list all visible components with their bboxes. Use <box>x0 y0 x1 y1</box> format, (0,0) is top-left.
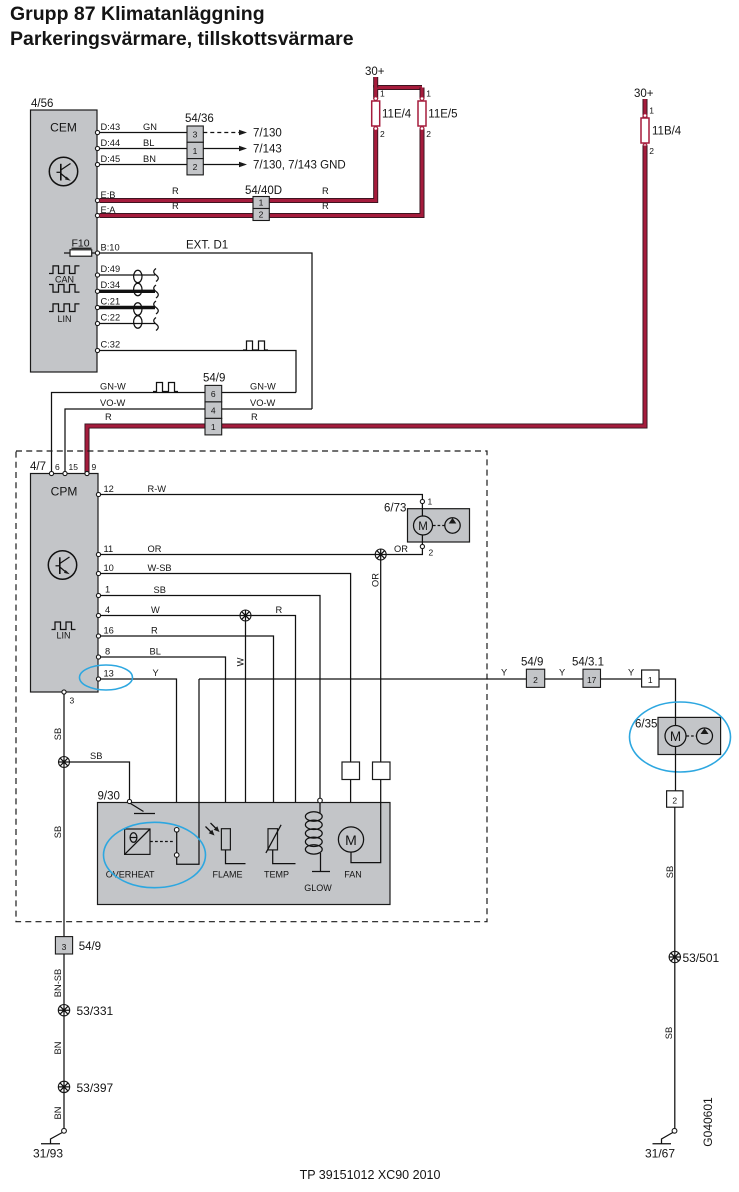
svg-text:53/501: 53/501 <box>683 951 720 965</box>
battery feed node 30+ (right) <box>634 88 654 100</box>
wire W vertical to flame return <box>236 621 246 864</box>
wire BL from pin 8 to flame sensor <box>101 647 226 829</box>
svg-text:1: 1 <box>649 106 654 116</box>
svg-text:VO-W: VO-W <box>100 398 126 408</box>
inline connector square (fan return) <box>373 762 391 780</box>
svg-text:8: 8 <box>105 647 110 657</box>
svg-text:TP 39151012 XC90 2010: TP 39151012 XC90 2010 <box>300 1168 441 1182</box>
svg-text:1: 1 <box>426 89 431 99</box>
svg-text:VO-W: VO-W <box>250 398 276 408</box>
svg-text:6: 6 <box>211 389 216 399</box>
wire D:44 BL <box>100 138 188 149</box>
wire Y continuation to connector 54/9 pin 2 <box>199 668 526 680</box>
CPM pin 10 <box>96 563 113 576</box>
glow element pin <box>318 798 323 803</box>
svg-text:SB: SB <box>53 728 63 740</box>
svg-text:GLOW: GLOW <box>304 883 332 893</box>
svg-text:4: 4 <box>105 605 110 615</box>
svg-text:R-W: R-W <box>148 484 167 494</box>
CEM pin D:34 <box>95 280 120 293</box>
svg-text:C:32: C:32 <box>101 340 121 350</box>
svg-text:CAN: CAN <box>55 275 74 285</box>
control unit CEM 4/56 <box>31 98 98 372</box>
svg-text:SB: SB <box>665 866 675 878</box>
svg-text:BL: BL <box>143 138 154 148</box>
svg-text:1: 1 <box>648 675 653 685</box>
CEM pin C:22 <box>95 313 120 326</box>
junction 53/501 <box>669 951 719 965</box>
CPM pin 1 <box>96 585 110 598</box>
junction on SB wire <box>59 757 70 768</box>
svg-text:17: 17 <box>587 675 597 685</box>
svg-text:2: 2 <box>259 210 264 220</box>
CPM pin 13 <box>96 669 113 682</box>
LIN twisted pair C:21/C:22 <box>100 301 159 331</box>
svg-text:BN: BN <box>53 1042 63 1055</box>
wire R-W from pin 12 to pump 6/73 pin 1 <box>101 484 433 509</box>
CEM pin E:A <box>95 205 116 218</box>
CPM pin 11 <box>96 544 113 557</box>
svg-text:R: R <box>322 186 329 196</box>
control unit CPM 4/7 <box>30 461 98 692</box>
wire OR from pin 11 to pump 6/73 pin 2 <box>101 542 434 558</box>
battery feed node 30+ (left) <box>365 66 385 78</box>
svg-text:FAN: FAN <box>344 870 362 880</box>
svg-text:1: 1 <box>105 585 110 595</box>
svg-text:3: 3 <box>193 130 198 140</box>
svg-text:2: 2 <box>429 548 434 558</box>
svg-text:11B/4: 11B/4 <box>652 126 682 138</box>
wire R E:A to fuse 11E/5 (red power) <box>100 88 423 216</box>
connector 54/9 pin 3 (lower) <box>55 937 101 954</box>
svg-text:31/67: 31/67 <box>645 1147 675 1161</box>
overheat thermostat <box>106 829 174 880</box>
svg-text:R: R <box>251 412 258 422</box>
fuse F10 inside CEM <box>64 238 97 257</box>
svg-text:W: W <box>151 605 160 615</box>
svg-text:Y: Y <box>559 668 565 678</box>
svg-text:Y: Y <box>153 668 159 678</box>
transistor symbol inside CPM <box>48 551 76 579</box>
svg-text:54/40D: 54/40D <box>245 185 282 197</box>
CAN bus twisted pair D:49/D:34 <box>100 269 159 299</box>
fuse 11B/4 <box>641 99 682 156</box>
svg-text:11E/4: 11E/4 <box>382 109 412 121</box>
svg-text:31/93: 31/93 <box>33 1147 63 1161</box>
svg-text:54/9: 54/9 <box>79 941 101 953</box>
svg-text:D:45: D:45 <box>101 154 121 164</box>
svg-text:30+: 30+ <box>365 66 385 78</box>
dashed enclosure (heater assembly) <box>16 451 487 922</box>
CEM pin D:44 <box>95 138 120 151</box>
svg-text:2: 2 <box>426 129 431 139</box>
svg-text:G040601: G040601 <box>701 1097 715 1147</box>
svg-text:C:22: C:22 <box>101 313 121 323</box>
svg-text:30+: 30+ <box>634 88 654 100</box>
CPM top pin 9 <box>85 462 97 476</box>
CPM pin 12 <box>96 484 113 497</box>
svg-text:11: 11 <box>104 544 114 554</box>
svg-text:7/130, 7/143 GND: 7/130, 7/143 GND <box>253 160 346 172</box>
svg-text:15: 15 <box>69 462 79 472</box>
svg-text:R: R <box>276 605 283 615</box>
CAN square-wave symbol <box>49 266 80 292</box>
svg-text:12: 12 <box>104 484 114 494</box>
CEM pin B:10 <box>95 243 119 256</box>
svg-text:54/9: 54/9 <box>521 657 543 669</box>
svg-text:OR: OR <box>148 544 162 554</box>
svg-text:FLAME: FLAME <box>212 870 242 880</box>
CPM pin 8 <box>96 647 110 660</box>
wire VO-W left <box>65 398 205 473</box>
svg-text:C:21: C:21 <box>101 297 121 307</box>
svg-text:2: 2 <box>672 796 677 806</box>
switch contact into 9/30 <box>127 799 155 813</box>
pump 6/35 <box>635 717 721 754</box>
CPM pin 4 <box>96 605 110 618</box>
ground 31/67 <box>645 1128 677 1160</box>
wire EXT. D1 from B:10 <box>100 240 313 410</box>
CEM pin D:49 <box>95 264 120 277</box>
wire BN-SB to junction 53/331 <box>53 954 64 1129</box>
svg-text:1: 1 <box>259 198 264 208</box>
svg-text:53/397: 53/397 <box>77 1081 114 1095</box>
svg-text:BN: BN <box>143 154 156 164</box>
svg-text:16: 16 <box>104 626 114 636</box>
svg-text:BN-SB: BN-SB <box>53 969 63 997</box>
svg-text:Grupp 87 Klimatanläggning: Grupp 87 Klimatanläggning <box>10 3 265 25</box>
CPM top pin 6 <box>49 462 60 476</box>
svg-text:OR: OR <box>371 573 381 587</box>
connector 54/3.1 pin 17 <box>572 657 604 688</box>
wire SB branch to heater switch <box>70 751 130 800</box>
svg-text:GN: GN <box>143 122 157 132</box>
CEM pin C:21 <box>95 297 120 310</box>
svg-text:7/130: 7/130 <box>253 128 282 140</box>
svg-text:M: M <box>670 729 681 744</box>
svg-text:Parkeringsvärmare, tillskottsv: Parkeringsvärmare, tillskottsvärmare <box>10 28 354 50</box>
svg-text:53/331: 53/331 <box>77 1004 114 1018</box>
svg-text:BN: BN <box>53 1107 63 1120</box>
dashed wire to 7/130 with arrow <box>203 128 281 140</box>
svg-text:4: 4 <box>211 406 216 416</box>
wire to 7/143 with arrow <box>203 144 281 156</box>
svg-text:SB: SB <box>53 826 63 838</box>
junction 53/397 <box>58 1081 113 1095</box>
svg-text:M: M <box>418 521 428 533</box>
wire Y to connector 1 <box>601 668 642 680</box>
temperature sensor <box>264 825 296 880</box>
glow element coil <box>304 803 332 893</box>
svg-text:3: 3 <box>62 942 67 952</box>
svg-text:10: 10 <box>104 563 114 573</box>
svg-text:1: 1 <box>193 146 198 156</box>
svg-text:6/35: 6/35 <box>635 719 657 731</box>
connector 54/40D <box>245 185 282 221</box>
svg-text:9/30: 9/30 <box>98 791 120 803</box>
wire GN-W right <box>222 382 296 393</box>
junction on W wire <box>240 610 251 621</box>
svg-text:R: R <box>322 201 329 211</box>
svg-text:3: 3 <box>70 696 75 706</box>
svg-text:R: R <box>105 412 112 422</box>
svg-text:W: W <box>236 657 246 666</box>
heater unit 9/30 <box>98 791 391 905</box>
wire from 6/35 to connector 2 <box>675 755 677 791</box>
svg-text:Y: Y <box>501 668 507 678</box>
LIN square-wave symbol in CPM <box>52 622 76 641</box>
svg-text:2: 2 <box>380 129 385 139</box>
junction 53/331 <box>58 1004 113 1018</box>
highlight ellipse on pin 13 <box>80 665 133 690</box>
svg-text:1: 1 <box>428 497 433 507</box>
svg-text:B:10: B:10 <box>101 243 120 253</box>
wire R E:B to fuse 11E/4 (red power) <box>100 77 423 201</box>
svg-text:1: 1 <box>211 422 216 432</box>
svg-text:1: 1 <box>380 89 385 99</box>
svg-text:LIN: LIN <box>57 314 71 324</box>
wire GN-W left with signal symbol <box>52 382 206 474</box>
transistor symbol inside CEM <box>49 157 77 185</box>
svg-text:54/3.1: 54/3.1 <box>572 657 604 669</box>
wire SB from CPM pin 3 down <box>53 694 64 937</box>
wire R from pin 16 to temp sensor <box>101 626 274 829</box>
svg-text:2: 2 <box>649 146 654 156</box>
CPM bottom pin 3 <box>62 690 75 706</box>
svg-text:CPM: CPM <box>51 485 78 499</box>
wire Y from pin 13 to overheat switch <box>101 668 177 828</box>
svg-text:D:49: D:49 <box>101 264 121 274</box>
wire R main feed from 11B/4 to 54/9 to CPM pin 9 (red power) <box>87 146 645 474</box>
svg-text:2: 2 <box>533 675 538 685</box>
wire SB from pin 1 down to glow pin <box>101 585 321 798</box>
svg-text:13: 13 <box>104 669 114 679</box>
page title <box>10 3 354 50</box>
svg-text:D:43: D:43 <box>101 122 121 132</box>
svg-text:R: R <box>151 626 158 636</box>
wire D:45 BN <box>100 154 188 165</box>
CPM pin 16 <box>96 626 113 639</box>
wire to pump 6/35 <box>659 679 676 717</box>
svg-text:GN-W: GN-W <box>100 382 126 392</box>
svg-text:BL: BL <box>150 647 161 657</box>
wire D:43 GN <box>100 122 188 133</box>
svg-text:SB: SB <box>154 585 166 595</box>
svg-text:TEMP: TEMP <box>264 870 289 880</box>
wire from C:32 with signal symbol <box>100 341 297 393</box>
svg-text:54/9: 54/9 <box>203 373 225 385</box>
svg-text:9: 9 <box>92 462 97 472</box>
svg-text:D:34: D:34 <box>101 280 121 290</box>
fan motor <box>338 780 380 880</box>
ground 31/93 <box>33 1128 66 1160</box>
wire Y between connectors <box>545 668 583 680</box>
svg-text:R: R <box>172 201 179 211</box>
CEM pin C:32 <box>95 340 120 353</box>
connector 1 of 6/35 <box>642 670 659 687</box>
wire VO-W right <box>222 398 312 409</box>
svg-text:54/36: 54/36 <box>185 113 214 125</box>
svg-text:W-SB: W-SB <box>148 563 172 573</box>
connector 2 of 6/35 <box>667 791 683 807</box>
svg-text:SB: SB <box>664 1027 674 1039</box>
highlight ellipse on 6/35 <box>630 702 731 772</box>
wire OR vertical to fan connector <box>371 560 381 762</box>
svg-text:11E/5: 11E/5 <box>428 109 457 121</box>
svg-text:R: R <box>172 186 179 196</box>
svg-text:M: M <box>345 832 357 848</box>
svg-text:6/73: 6/73 <box>384 503 406 515</box>
CEM pin D:45 <box>95 154 120 167</box>
wire to 7/130, 7/143 GND with arrow <box>203 160 345 172</box>
svg-text:Y: Y <box>628 668 634 678</box>
wire SB from connector 2 to ground <box>664 807 675 1128</box>
connector 54/36 <box>185 113 214 175</box>
svg-text:LIN: LIN <box>56 631 70 641</box>
LIN square-wave symbol in CEM <box>49 304 80 324</box>
fuse 11E/5 <box>418 89 458 140</box>
svg-text:GN-W: GN-W <box>250 382 276 392</box>
overheat switch contacts <box>174 679 199 864</box>
connector 54/9 pin 2 (right) <box>521 657 545 688</box>
svg-text:OR: OR <box>394 544 408 554</box>
svg-text:D:44: D:44 <box>101 138 121 148</box>
inline connector square (fan feed) <box>342 762 360 780</box>
svg-text:4/56: 4/56 <box>31 98 53 110</box>
connector 54/9 (upper) <box>203 373 225 435</box>
CPM top pin 15 <box>63 462 78 476</box>
svg-text:EXT. D1: EXT. D1 <box>186 240 228 252</box>
svg-text:4/7: 4/7 <box>30 461 46 473</box>
wire W from pin 4 to junction then R to temp <box>101 605 296 864</box>
pump relay 6/73 <box>384 503 470 543</box>
highlight ellipse on overheat <box>104 822 206 887</box>
wire W-SB from pin 10 down to fan <box>101 563 351 827</box>
svg-text:7/143: 7/143 <box>253 144 282 156</box>
svg-text:CEM: CEM <box>50 121 77 135</box>
fuse 11E/4 <box>372 89 412 140</box>
junction on OR wire <box>375 549 386 560</box>
svg-text:SB: SB <box>90 751 102 761</box>
CEM pin E:B <box>95 190 115 203</box>
CEM pin D:43 <box>95 122 120 135</box>
svg-text:6: 6 <box>55 462 60 472</box>
flame sensor <box>206 823 246 880</box>
svg-text:2: 2 <box>193 162 198 172</box>
